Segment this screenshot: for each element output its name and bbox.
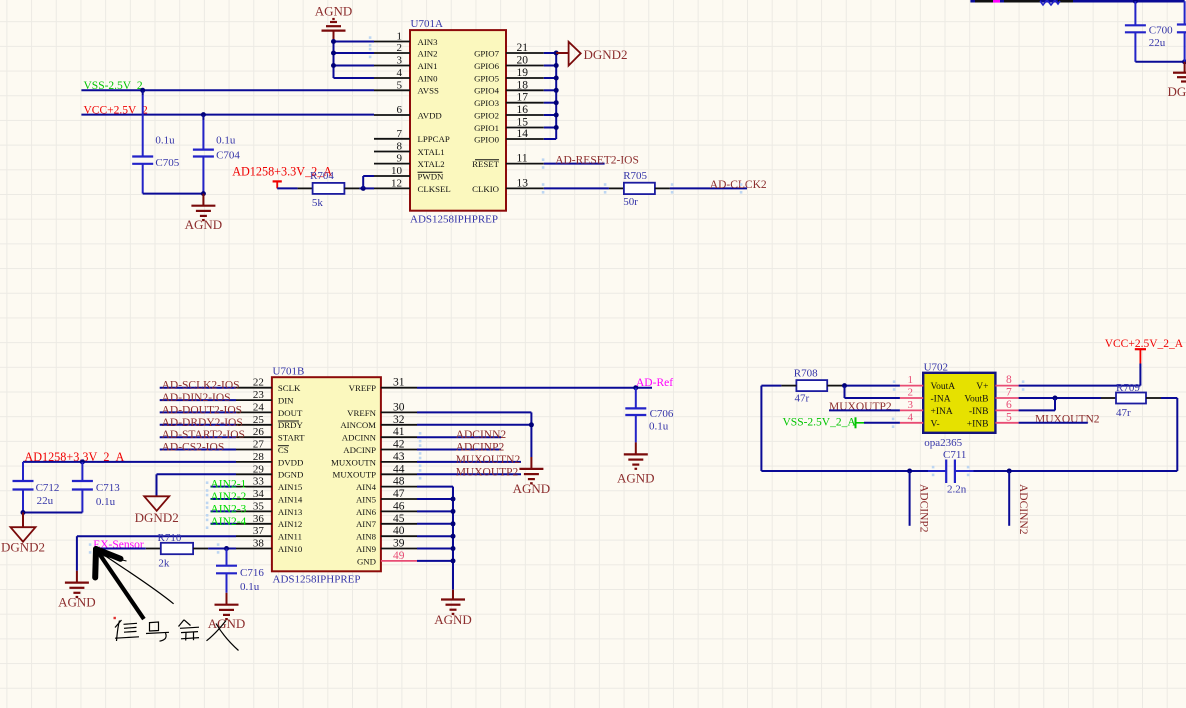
svg-text:ADCINP2: ADCINP2 [918,484,930,533]
pin 32 AINCOM U701B [340,414,417,430]
pin 47 AIN5 U701B [356,488,417,504]
svg-text:49: 49 [393,550,405,562]
svg-text:41: 41 [393,426,405,438]
svg-text:AGND: AGND [185,217,223,232]
pin 2 -INA U702 [900,387,951,405]
svg-text:1: 1 [908,374,914,386]
svg-text:VCC+2.5V_2_A: VCC+2.5V_2_A [1105,338,1184,350]
svg-text:VREFP: VREFP [349,383,376,393]
capacitor C704 0.1u [193,112,241,194]
svg-text:XTAL1: XTAL1 [418,147,445,157]
net AD-START2-IOS wire [160,429,245,441]
svg-text:12: 12 [391,177,402,189]
net MUXOUTP2 wire to +INA [829,401,900,413]
svg-text:11: 11 [517,153,528,165]
net ADCINN2 wire (vertical) [1007,469,1029,535]
pin 16 GPIO2 U701A [474,104,544,120]
wire C712/C713 bottom node [21,510,83,515]
svg-text:CLKSEL: CLKSEL [418,184,451,194]
svg-text:-INB: -INB [969,407,989,417]
ground AGND (below VREFN wire) [513,457,551,496]
svg-text:44: 44 [393,463,405,475]
pin 42 ADCINP U701B [343,439,417,455]
pin 25 DRDY U701B [236,414,303,430]
svg-text:MUXOUTP2: MUXOUTP2 [829,401,892,413]
net AIN2-4 wire [206,516,247,529]
pin 7 LPPCAP U701A [374,128,450,144]
wire R710 to AIN10 [193,543,236,553]
capacitor at right edge (partial) [1177,1,1186,62]
wire GPIO bus [544,53,556,139]
pin 24 DOUT U701B [236,401,303,417]
svg-text:+INB: +INB [967,419,989,429]
annotation arrow (hand drawn) [95,549,173,619]
ground AGND (left, below AIN11 wire) [58,571,96,610]
svg-text:AIN9: AIN9 [356,544,377,554]
net AD-SCLK2-IOS wire [160,380,240,392]
svg-text:AD-DIN2-IOS: AD-DIN2-IOS [162,392,231,404]
resistor R710 2k [158,532,194,570]
svg-text:47r: 47r [795,392,810,404]
svg-text:C700: C700 [1149,25,1173,37]
svg-text:U702: U702 [924,362,948,374]
svg-text:6: 6 [397,104,403,116]
svg-text:42: 42 [393,439,405,451]
svg-text:CLKIO: CLKIO [472,184,499,194]
svg-text:C712: C712 [36,482,60,494]
svg-text:XTAL2: XTAL2 [418,159,445,169]
svg-text:17: 17 [517,92,529,104]
svg-text:DRDY: DRDY [278,420,304,430]
svg-text:LPPCAP: LPPCAP [418,134,450,144]
net AD-CS2-IOS wire [160,442,236,454]
svg-text:ADCINP: ADCINP [343,445,376,455]
svg-text:AIN1: AIN1 [418,61,438,71]
svg-text:2: 2 [908,387,914,399]
svg-text:RESET: RESET [472,159,500,169]
svg-text:31: 31 [393,377,405,389]
svg-text:DIN: DIN [278,396,294,406]
svg-text:MUXOUTP2: MUXOUTP2 [456,466,519,478]
svg-text:U701B: U701B [273,365,305,377]
power AD1258+3.3V_2_A (at R704) [232,165,332,189]
wire VREFN / AINCOM to AGND [417,412,534,457]
svg-text:5: 5 [1006,411,1012,423]
svg-text:AIN0: AIN0 [418,73,439,83]
capacitor C712 22u [13,462,60,513]
svg-text:3: 3 [397,55,403,67]
net VSS-2.5V_2 wire to AVSS [81,80,374,92]
svg-text:C704: C704 [216,150,240,162]
svg-text:C716: C716 [240,567,264,579]
svg-text:0.1u: 0.1u [155,134,175,146]
svg-text:C705: C705 [155,157,179,169]
resistor R704 5k [310,170,344,209]
svg-text:AGND: AGND [58,595,96,610]
wire CLKIO to R705 [542,183,624,193]
pin 18 GPIO4 U701A [474,79,544,95]
pin 49 GND U701B [357,550,417,566]
ground DGND2 (right edge, partial) [1168,62,1186,99]
wire VoutB to R709 and -INB feedback [1019,396,1116,411]
svg-text:4: 4 [908,411,914,423]
wire VREFP to AD-Ref node [417,385,652,390]
svg-text:AIN2-3: AIN2-3 [211,503,247,515]
svg-text:45: 45 [393,513,405,525]
svg-text:AIN2-1: AIN2-1 [211,479,247,491]
junction dots AIN wires [331,36,371,68]
svg-text:AIN13: AIN13 [278,507,303,517]
svg-text:AIN3: AIN3 [418,37,439,47]
pin 30 VREFN U701B [347,401,417,417]
svg-text:AIN5: AIN5 [356,494,377,504]
svg-text:0.1u: 0.1u [240,581,260,593]
svg-text:ADS1258IPHPREP: ADS1258IPHPREP [410,214,498,226]
svg-text:GND: GND [357,556,376,566]
net AD-DRDY2-IOS wire [160,417,243,429]
svg-text:-INA: -INA [931,395,951,405]
svg-text:37: 37 [253,525,265,537]
svg-text:32: 32 [393,414,405,426]
svg-text:ADCINN2: ADCINN2 [456,429,507,441]
svg-text:13: 13 [517,177,529,189]
pin 29 DGND U701B [236,463,303,479]
junction dots AIN bus [451,497,456,564]
wire AGND bus to AIN0-AIN3 [334,42,375,79]
pin 19 GPIO5 U701A [474,67,544,83]
ground AGND (below C706) [617,442,655,485]
pin 13 CLKIO U701A [472,177,544,193]
capacitor C713 0.1u [72,462,120,513]
svg-text:C706: C706 [650,408,674,420]
ground AGND (top, above U701A) [315,4,353,42]
svg-text:28: 28 [253,451,265,463]
svg-text:DVDD: DVDD [278,457,303,467]
power DGND2 (right of U701A) [556,42,627,66]
svg-text:22: 22 [253,377,264,389]
svg-text:DGND2: DGND2 [1,539,45,554]
capacitor C706 0.1u [625,388,674,443]
svg-text:50r: 50r [623,196,638,208]
svg-text:AGND: AGND [513,481,551,496]
pin 38 AIN10 U701B [236,538,303,554]
svg-text:23: 23 [253,389,265,401]
svg-text:GPIO4: GPIO4 [474,86,500,96]
svg-text:AD-CLCK2: AD-CLCK2 [710,179,767,191]
svg-text:5: 5 [397,79,403,91]
svg-text:MUXOUTN2: MUXOUTN2 [456,454,521,466]
svg-text:AGND: AGND [208,616,246,631]
IC U702 opa2365 [923,362,995,449]
pin 7 VoutB U702 [964,387,1018,405]
svg-text:GPIO3: GPIO3 [474,98,500,108]
net ADCINP2 wire (vertical) [907,469,929,533]
svg-text:DGND2: DGND2 [1168,84,1186,99]
resistor zigzag (top edge, partial) [1040,0,1060,5]
svg-text:AD-SCLK2-IOS: AD-SCLK2-IOS [162,380,240,392]
pin 41 ADCINN U701B [342,426,417,442]
svg-text:6: 6 [1006,399,1012,411]
svg-text:18: 18 [517,79,529,91]
svg-text:MUXOUTN: MUXOUTN [331,457,377,467]
pin 34 AIN14 U701B [236,488,303,504]
pin 31 VREFP U701B [349,377,417,393]
pin 9 XTAL2 U701A [374,153,445,169]
svg-text:AIN2-2: AIN2-2 [211,491,247,503]
capacitor C700 22u [1125,1,1173,62]
svg-text:48: 48 [393,476,405,488]
ground AGND (below C716) [208,593,246,631]
pin 5 +INB U702 [967,411,1019,429]
svg-text:AIN2: AIN2 [418,48,438,58]
wire R708 feedback loop left [761,386,796,471]
svg-text:33: 33 [253,476,265,488]
svg-text:39: 39 [393,538,405,550]
svg-text:AD-START2-IOS: AD-START2-IOS [162,429,245,441]
svg-text:15: 15 [517,117,529,129]
pin 44 MUXOUTP U701B [333,463,418,479]
capacitor C716 0.1u [216,549,264,593]
pin 11 RESET U701A [472,153,544,169]
svg-text:8: 8 [397,141,403,153]
svg-text:0.1u: 0.1u [216,134,236,146]
svg-text:MUXOUTN2: MUXOUTN2 [1035,414,1100,426]
IC U701B ADS1258IPHPREP [272,365,381,585]
svg-text:29: 29 [253,463,265,475]
resistor R705 50r [623,170,655,208]
svg-text:21: 21 [517,42,529,54]
svg-text:AGND: AGND [315,4,353,19]
pin 46 AIN6 U701B [356,500,417,516]
net AIN2-3 wire [206,503,247,516]
svg-text:AGND: AGND [617,470,655,485]
svg-text:C711: C711 [943,449,966,461]
svg-text:AIN14: AIN14 [278,494,303,504]
pin 5 AVSS U701A [374,79,439,95]
pin 37 AIN11 U701B [236,525,302,541]
svg-text:ADCINN2: ADCINN2 [1017,484,1029,535]
svg-text:AIN2-4: AIN2-4 [211,516,247,528]
svg-text:+INA: +INA [931,407,953,417]
net VCC+2.5V_2 wire to AVDD [81,104,374,116]
net MUXOUTN2 wire [417,454,521,467]
svg-text:2.2n: 2.2n [947,483,967,495]
svg-text:30: 30 [393,401,405,413]
pin 28 DVDD U701B [236,451,303,467]
pin 6 -INB U702 [969,399,1019,417]
pin 43 MUXOUTN U701B [331,451,417,467]
svg-text:24: 24 [253,401,265,413]
svg-text:GPIO0: GPIO0 [474,134,500,144]
junction dots GPIO bus [554,51,559,131]
svg-text:0.1u: 0.1u [96,496,116,508]
svg-text:36: 36 [253,513,265,525]
pin 4 V- U702 [900,411,940,429]
svg-text:DGND2: DGND2 [135,510,179,525]
svg-text:AIN11: AIN11 [278,532,302,542]
svg-text:AD-DRDY2-IOS: AD-DRDY2-IOS [162,417,243,429]
svg-text:40: 40 [393,525,405,537]
svg-text:7: 7 [397,128,403,140]
wire R704 to CLKSEL / PWDN [344,176,374,191]
wire R709 to right loop [1146,398,1177,471]
svg-text:AIN10: AIN10 [278,544,303,554]
pin 17 GPIO3 U701A [474,92,544,108]
resistor R709 47r [1116,382,1146,419]
svg-text:3: 3 [908,399,914,411]
pin 20 GPIO6 U701A [474,55,544,71]
svg-text:GPIO1: GPIO1 [474,123,499,133]
pin 14 GPIO0 U701A [474,128,544,144]
pin 4 AIN0 U701A [374,67,438,83]
svg-text:35: 35 [253,500,265,512]
svg-text:14: 14 [517,128,529,140]
ground DGND2 (below pin29) [135,496,179,525]
svg-text:AIN12: AIN12 [278,519,302,529]
wire bottom loop with C711 [761,470,1177,472]
svg-text:34: 34 [253,488,265,500]
pin 35 AIN13 U701B [236,500,303,516]
svg-text:DGND2: DGND2 [584,47,628,62]
net ADCINN2 wire [417,429,506,442]
svg-text:47r: 47r [1116,407,1131,419]
svg-text:VREFN: VREFN [347,408,376,418]
svg-text:AIN7: AIN7 [356,519,377,529]
wire C705 to C704 ground node [143,191,206,196]
svg-text:R705: R705 [623,170,647,182]
wire power to R704 [277,187,312,189]
svg-text:47: 47 [393,488,405,500]
junction dot top wire [1133,0,1138,4]
svg-text:GPIO7: GPIO7 [474,48,500,58]
svg-text:46: 46 [393,500,405,512]
svg-text:VoutB: VoutB [964,395,988,405]
net EX-Sensor wire [89,539,161,553]
ground AGND (below C704) [185,194,223,232]
svg-text:CS: CS [278,445,289,455]
svg-text:AGND: AGND [434,612,472,627]
pin 1 AIN3 U701A [374,31,438,47]
svg-text:V-: V- [931,419,940,429]
svg-text:10: 10 [391,165,403,177]
svg-text:22u: 22u [37,495,54,507]
net MUXOUTN2 wire to +INB [1019,414,1100,426]
svg-text:ADCINN: ADCINN [342,433,377,443]
svg-text:AIN15: AIN15 [278,482,303,492]
pin 45 AIN7 U701B [356,513,417,529]
net ADCINP2 wire [417,442,505,455]
wire R708 to VoutA junction [827,380,900,398]
net AD1258+3.3V_2_A wire to DVDD [23,450,236,464]
svg-text:2: 2 [397,42,403,54]
pin 27 CS U701B [236,439,289,455]
wire top edge net [970,0,1184,3]
pin 3 +INA U702 [900,399,953,417]
svg-text:AD-Ref: AD-Ref [636,377,673,389]
svg-text:22u: 22u [1149,37,1166,49]
svg-text:0.1u: 0.1u [649,421,669,433]
pin 26 START U701B [236,426,305,442]
svg-text:R708: R708 [794,367,818,379]
net MUXOUTP2 wire [417,466,521,479]
svg-text:25: 25 [253,414,265,426]
svg-text:7: 7 [1006,387,1012,399]
wire AIN11 to AGND [77,536,236,571]
svg-text:MUXOUTP: MUXOUTP [333,470,377,480]
pin 15 GPIO1 U701A [474,117,544,133]
svg-text:U701A: U701A [411,18,443,30]
svg-text:GPIO5: GPIO5 [474,73,500,83]
svg-text:AVDD: AVDD [418,110,442,120]
svg-text:9: 9 [397,153,403,165]
IC U701A ADS1258IPHPREP [410,18,506,226]
svg-text:opa2365: opa2365 [924,437,962,449]
svg-text:20: 20 [517,55,529,67]
svg-text:AD-CS2-IOS: AD-CS2-IOS [162,442,225,454]
ground AGND (below AIN bus) [434,590,472,627]
svg-text:R710: R710 [158,532,182,544]
svg-text:START: START [278,433,305,443]
pin 39 AIN9 U701B [356,538,417,554]
svg-text:AD-DOUT2-IOS: AD-DOUT2-IOS [162,404,243,416]
power VSS-2.5V_2_A (bar) wire to V- [783,416,900,428]
svg-text:DGND: DGND [278,470,303,480]
svg-text:SCLK: SCLK [278,383,301,393]
svg-text:26: 26 [253,426,265,438]
svg-text:16: 16 [517,104,529,116]
pin 12 CLKSEL U701A [374,177,451,193]
svg-text:AD-RESET2-IOS: AD-RESET2-IOS [555,155,639,167]
power VCC+2.5V_2_A wire to V+ [1019,338,1184,391]
pin 48 AIN4 U701B [356,476,417,492]
svg-text:R709: R709 [1116,382,1140,394]
svg-text:AIN4: AIN4 [356,482,377,492]
wire C700 bottom to right edge [1135,59,1186,64]
svg-text:1: 1 [397,31,403,43]
pin 23 DIN U701B [236,389,294,405]
svg-text:AINCOM: AINCOM [340,420,376,430]
svg-text:VoutA: VoutA [931,382,956,392]
net AIN2-2 wire [206,491,247,504]
svg-text:AVSS: AVSS [418,86,439,96]
annotation text 信号输入 (hand drawn strokes) [115,620,239,651]
capacitor C711 2.2n (horizontal) [928,449,974,496]
svg-text:ADCINP2: ADCINP2 [456,442,505,454]
net AD-CLCK2 wire [655,179,767,193]
svg-text:8: 8 [1006,374,1012,386]
pin 8 V+ U702 [976,374,1018,392]
svg-text:C713: C713 [96,482,120,494]
wire AIN4-AIN9/GND bus to AGND [417,487,453,590]
pin 22 SCLK U701B [236,377,301,393]
pin 8 XTAL1 U701A [374,141,445,157]
wire DGND pin29 to DGND2 [157,474,237,496]
svg-text:4: 4 [397,67,403,79]
svg-text:5k: 5k [312,197,324,209]
ground DGND2 (below C712) [1,513,45,555]
svg-text:PWDN: PWDN [418,171,445,181]
svg-text:43: 43 [393,451,405,463]
pin 10 PWDN U701A [374,165,444,181]
pin 40 AIN8 U701B [356,525,417,541]
svg-text:R704: R704 [310,170,334,182]
svg-text:38: 38 [253,538,265,550]
svg-text:27: 27 [253,439,265,451]
svg-text:19: 19 [517,67,529,79]
pin 3 AIN1 U701A [374,55,438,71]
pin 36 AIN12 U701B [236,513,302,529]
pin 33 AIN15 U701B [236,476,303,492]
